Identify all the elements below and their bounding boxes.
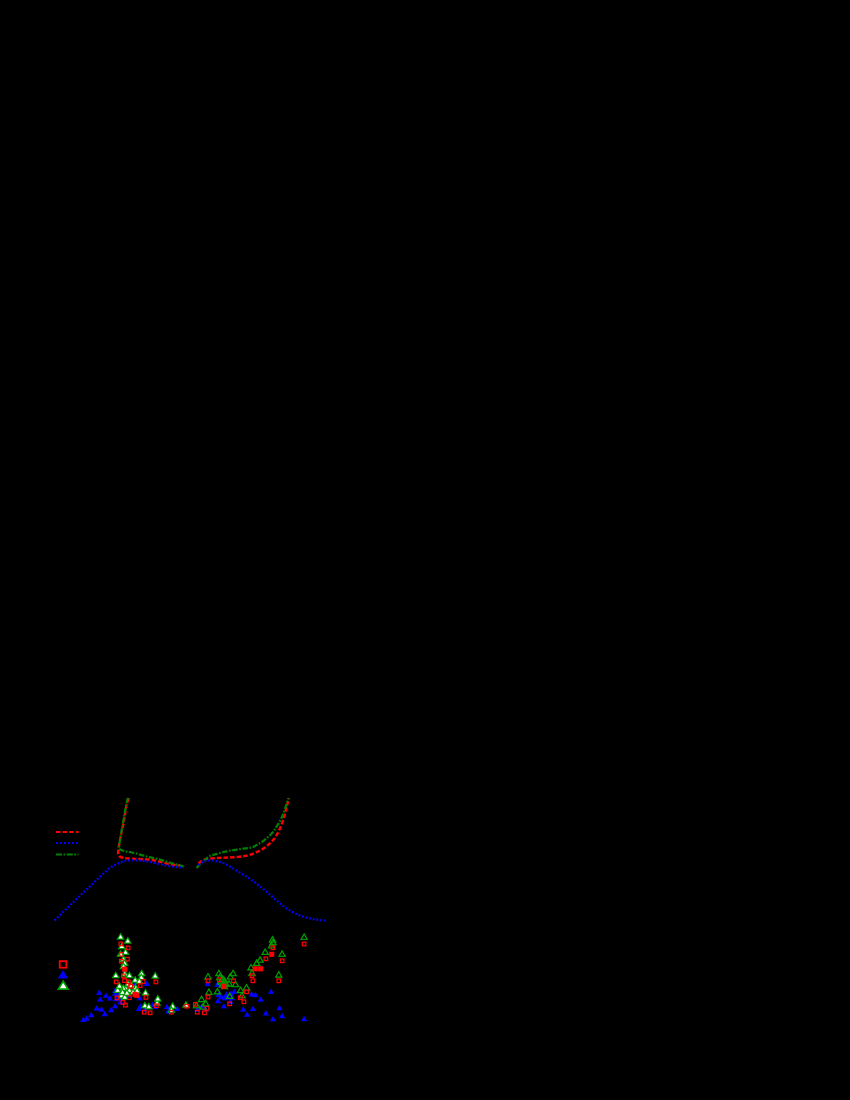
scatter: solid green triangle clump (217, 976, 229, 989)
legend sample: blue dotted line (56, 842, 79, 844)
green dash-dot curve, right branch (197, 798, 289, 868)
scatter: blue filled triangles (80, 981, 307, 1023)
red dashed curve, right branch (199, 798, 290, 863)
legend marker: red open square (60, 961, 67, 968)
blue dotted curve, left branch (55, 860, 185, 920)
scatter: white-filled green-edged triangles (113, 934, 190, 1013)
scatter: open green triangles (193, 934, 307, 1009)
scatter: red open squares (114, 942, 306, 1015)
blue dotted curve, right branch (199, 860, 326, 920)
scatter: red filled squares (123, 952, 274, 997)
legend marker: blue filled triangle (58, 970, 68, 978)
legend sample: green dash-dot line (56, 854, 79, 856)
red dashed curve, left branch (118, 798, 180, 866)
green dash-dot curve, left branch (119, 798, 185, 867)
legend sample: red dashed line (56, 831, 79, 833)
legend marker: white triangle with green edge (58, 981, 68, 989)
